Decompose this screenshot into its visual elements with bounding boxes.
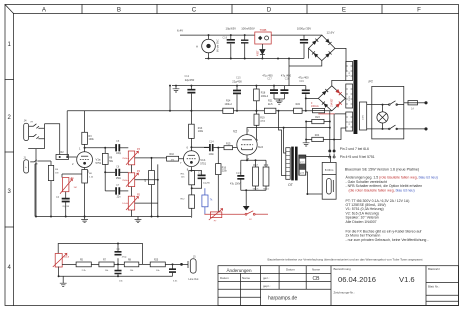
resistor R18 [255, 86, 257, 89]
wire bridge B2 right to PT [344, 97, 347, 99]
svg-text:C16: C16 [223, 37, 228, 40]
svg-text:100p: 100p [116, 153, 122, 155]
potentiometer P1 gain (red) [60, 178, 72, 194]
svg-text:1A: 1A [411, 107, 414, 110]
potentiometer P3 treble (red) [126, 151, 138, 165]
svg-text:V2: V2 [233, 130, 237, 134]
svg-text:harpamps.de: harpamps.de [268, 296, 297, 302]
wire B+ rail A [172, 85, 306, 87]
mid capacitor C8 [105, 171, 115, 173]
svg-text:R16: R16 [222, 167, 227, 169]
svg-text:C18: C18 [285, 78, 290, 81]
svg-text:5751: 5751 [96, 161, 102, 165]
jack J5 line out [182, 261, 189, 268]
fuse F2 HT [313, 108, 325, 112]
svg-text:C11: C11 [198, 172, 203, 175]
OT secondary bottom wire [306, 172, 308, 194]
svg-text:6V wie BNC: 6V wie BNC [217, 39, 220, 52]
red removed wire [318, 113, 335, 115]
OT primary return wire [279, 111, 286, 176]
svg-text:300V: 300V [349, 95, 351, 101]
resistor R17 [253, 167, 259, 186]
svg-text:1M: 1M [74, 187, 77, 189]
wiper bus wire [135, 164, 158, 216]
svg-text:5751: 5751 [200, 161, 206, 165]
wire heater bottom rail [205, 58, 304, 60]
svg-text:grün: grün [300, 160, 305, 163]
svg-text:A: A [196, 45, 198, 49]
transformer OT core [291, 147, 294, 181]
mains box with pilot lamp [372, 86, 404, 138]
svg-text:6L6: 6L6 [258, 145, 263, 149]
resistor R8 [124, 262, 139, 267]
input jack J1 [24, 160, 29, 173]
svg-text:R17: R17 [253, 164, 258, 167]
NFB resistor 7k (blue) [202, 195, 208, 207]
mains switch top [372, 101, 404, 105]
coupling capacitor C14 [204, 147, 209, 149]
svg-text:Bluesman SE 15W Version 1.6 (: Bluesman SE 15W Version 1.6 (neue Platin… [345, 168, 419, 172]
V1a cathode [62, 168, 85, 178]
svg-text:Pin 2 und 7 bei 6L6: Pin 2 und 7 bei 6L6 [340, 147, 369, 151]
diode D1 1N4007 [261, 44, 263, 59]
title block outer box [218, 266, 459, 306]
transformer PT right winding [360, 102, 367, 130]
svg-text:Datum: Datum [220, 276, 229, 280]
svg-text:R19: R19 [260, 118, 265, 120]
resistor R20 [263, 167, 269, 186]
bypass capacitor C11 [191, 171, 201, 175]
frame row dividers [5, 80, 14, 228]
capacitor C15 22u/400 [236, 86, 238, 111]
pot chain wires [131, 165, 133, 217]
svg-text:Name: Name [312, 268, 320, 272]
capacitor C4 100n/630V [244, 35, 246, 58]
svg-text:250k A: 250k A [122, 179, 129, 182]
svg-text:R24: R24 [315, 134, 320, 137]
capacitor C6 1000u/35V [303, 35, 305, 58]
shunt capacitor C21 3.3n [172, 264, 174, 268]
title block middle verticals [279, 266, 331, 306]
capacitor C3 22u/35 [65, 192, 67, 198]
svg-text:F: F [417, 7, 421, 14]
frame corner diagonal [5, 5, 14, 14]
connector A heater jack [202, 39, 216, 53]
svg-text:22µ/350: 22µ/350 [185, 78, 195, 82]
ground C17 C18 [274, 99, 284, 101]
capacitor C18 47u/450 [283, 86, 285, 99]
bridge rectifier B1 [309, 35, 336, 61]
svg-text:2x Mono bei Thomann: 2x Mono bei Thomann [346, 234, 381, 238]
wire heater top rail [180, 34, 322, 36]
V1a plate node [85, 144, 116, 151]
svg-text:1M: 1M [145, 179, 147, 182]
ground rail bottom left [36, 216, 191, 218]
lamp connection wires [382, 105, 384, 129]
svg-text:22µ/35: 22µ/35 [203, 183, 211, 185]
resistor R22 on rail [294, 108, 303, 113]
line out chain wire [62, 263, 180, 265]
ground stub rail A left [175, 86, 177, 89]
svg-text:22µ/400: 22µ/400 [232, 80, 242, 84]
transformer OT left winding [286, 148, 290, 180]
potentiometer P4 mid (red) [126, 173, 138, 187]
svg-text:OT: OT [288, 183, 294, 187]
svg-text:100k-2: 100k-2 [261, 95, 269, 98]
V1b plate node [191, 138, 209, 151]
grid resistor R10 [167, 156, 179, 161]
svg-text:100n: 100n [209, 153, 215, 156]
V1b cathode [190, 167, 192, 171]
svg-text:C12: C12 [185, 75, 190, 78]
svg-text:12,6V: 12,6V [327, 31, 335, 35]
grid leak R16 [217, 148, 219, 164]
svg-text:R22: R22 [296, 103, 301, 106]
ground line out [62, 276, 64, 283]
wire J4 sleeve [28, 128, 44, 216]
capacitor C13 47u/100V [237, 176, 244, 179]
tube V1a 5751 [77, 152, 93, 168]
frame top strip line [14, 13, 459, 15]
wire J4 to grid bus [45, 124, 60, 155]
wire B+ rail B [67, 110, 332, 112]
P2 bottom to ground rail [58, 267, 60, 277]
svg-text:1M: 1M [55, 172, 58, 174]
heater feed wire 1 [329, 111, 331, 150]
V2 plate wire to OT [247, 128, 330, 135]
svg-text:Blatt Nr.:: Blatt Nr.: [428, 285, 440, 289]
svg-text:10µ/63V: 10µ/63V [226, 27, 237, 31]
resistor R25 [150, 262, 165, 267]
bleeder left bus and ground [305, 122, 307, 143]
treble capacitor C5 [116, 144, 119, 151]
svg-text:160mA: 160mA [311, 105, 319, 108]
resistor R24 [312, 137, 324, 141]
removed NFB pot (red) [204, 209, 245, 220]
svg-text:Alle Dioden 1N4007: Alle Dioden 1N4007 [346, 220, 377, 224]
input jack J4 [24, 123, 29, 140]
resistor R4 [37, 161, 51, 165]
wire PT to mains box [367, 105, 372, 129]
svg-text:V1.6: V1.6 [399, 275, 415, 284]
resistor R7 [99, 262, 114, 267]
V2 cathode network [241, 155, 266, 175]
svg-text:12V: 12V [349, 121, 351, 125]
ground symbol under rail 1 [84, 217, 86, 220]
cathode ground bus [241, 190, 266, 206]
svg-text:gez.:: gez.: [263, 276, 270, 280]
speaker jack 8 Ohm [322, 162, 336, 199]
transformer PT left winding 2 [346, 84, 353, 108]
resistor R23 [312, 119, 324, 123]
svg-text:47µ 100V: 47µ 100V [230, 183, 241, 186]
title block right column rows [426, 283, 459, 302]
svg-text:C15: C15 [236, 77, 241, 80]
svg-text:10k A: 10k A [122, 202, 128, 205]
svg-text:2k-5: 2k-5 [268, 103, 273, 106]
tube V1b 5751 [184, 151, 200, 167]
bypass capacitor C9 [117, 244, 119, 265]
svg-text:06.04.2016: 06.04.2016 [338, 275, 376, 284]
shunt capacitor C10 13n [117, 264, 119, 270]
mains switch bottom [372, 125, 404, 129]
cathode resistor R6 [82, 170, 88, 184]
svg-text:Zeichnungs-Nr.:: Zeichnungs-Nr.: [334, 290, 355, 294]
svg-text:47µ /400: 47µ /400 [298, 76, 309, 80]
svg-text:VR: VR [30, 122, 33, 124]
title block left section rows [218, 273, 331, 297]
svg-text:8 Ohm: 8 Ohm [325, 168, 334, 172]
svg-text:C19: C19 [299, 80, 304, 83]
svg-text:250n: 250n [116, 178, 122, 180]
svg-text:Line Out: Line Out [189, 277, 199, 281]
svg-text:- nur zum privaten Gebrauch, k: - nur zum privaten Gebrauch, keine Veröf… [346, 238, 430, 242]
title block left section verticals [241, 266, 261, 306]
svg-text:Bezeichnung: Bezeichnung [334, 267, 352, 271]
svg-text:C14: C14 [209, 141, 214, 144]
svg-text:PT: PT [369, 80, 374, 84]
ground rail line out [59, 275, 173, 277]
transformer PT left winding 3 [346, 112, 353, 131]
svg-text:Blattzahl: Blattzahl [428, 267, 440, 271]
cathode resistor R11 [189, 171, 195, 185]
frame left strip line [13, 14, 15, 306]
svg-text:C: C [192, 7, 197, 14]
title block right column divider [425, 266, 427, 306]
treble out wire [135, 157, 165, 159]
svg-text:Datum: Datum [286, 268, 295, 272]
svg-text:250k A: 250k A [122, 157, 129, 160]
line out feed wire [58, 244, 142, 265]
plate resistor R3 [84, 111, 86, 133]
potentiometer P5 bass (red) [126, 196, 138, 210]
svg-text:220k: 220k [222, 171, 228, 173]
transformer OT right winding [299, 155, 306, 175]
frame column dividers [82, 5, 382, 14]
removed NFB switch (red) [245, 211, 268, 215]
jack J1 contacts [30, 160, 37, 164]
jack J4 switch contacts [29, 124, 45, 129]
svg-text:T60B: T60B [260, 28, 267, 32]
svg-text:D: D [267, 7, 272, 14]
resistor R5 [76, 262, 91, 267]
wire rail B down to V1a grid [66, 111, 68, 157]
svg-text:C13: C13 [236, 172, 241, 175]
svg-text:10k A: 10k A [64, 256, 70, 259]
capacitor C17 47u/450 [273, 86, 275, 99]
svg-text:R10: R10 [170, 153, 175, 156]
svg-text:100k-2: 100k-2 [225, 103, 233, 106]
svg-text:1N4007: 1N4007 [331, 98, 334, 107]
svg-text:Pin 4+5 und 9 bei 5751: Pin 4+5 und 9 bei 5751 [340, 155, 375, 159]
mains terminal bottom [404, 128, 425, 130]
svg-text:230V: 230V [363, 114, 365, 120]
wire bridge B2 left [306, 97, 319, 99]
svg-text:R25: R25 [154, 260, 159, 262]
wire bridge B1 left vertex [308, 48, 310, 58]
heater feed wire 2 [333, 114, 335, 150]
svg-text:V1b: V1b [200, 158, 205, 162]
svg-text:22µ/35: 22µ/35 [62, 206, 70, 208]
svg-text:1000µ /35V: 1000µ /35V [297, 27, 311, 31]
resistor R26 tone bleed [151, 158, 153, 171]
junction dots heater [208, 34, 210, 36]
plate resistor R13 [189, 124, 195, 138]
fuse F1 mains [404, 102, 408, 104]
svg-text:100k: 100k [198, 130, 204, 133]
potentiometer P2 line out (red) [53, 254, 67, 268]
heater pin stubs second row [330, 154, 334, 157]
ground symbol under rail 2 [137, 217, 139, 220]
resistor R2 [56, 155, 69, 160]
capacitor C19 47u/400 [305, 86, 307, 111]
bass capacitor C7 [105, 190, 115, 192]
transformer PT left winding 1 [346, 62, 353, 81]
OT secondary top wire to speaker jack [306, 157, 331, 163]
svg-text:47-5: 47-5 [260, 121, 265, 123]
wire bridge B1 bottom vertex [289, 59, 322, 86]
svg-text:R15: R15 [226, 142, 231, 145]
svg-text:E: E [342, 7, 346, 14]
screen resistor R19 [256, 111, 258, 114]
svg-text:Bauteilwerte teilweise zur Ver: Bauteilwerte teilweise zur Vereinfachung… [268, 258, 423, 262]
bridge rectifier B2 [318, 86, 345, 111]
switch box T60B [255, 32, 271, 44]
slope resistor R9 [104, 148, 106, 154]
capacitor C16 10u/63V [230, 35, 232, 58]
svg-text:CB: CB [313, 276, 321, 282]
svg-text:gepr.:: gepr.: [263, 284, 271, 288]
grid stopper R15 [214, 147, 224, 149]
svg-text:6,4V: 6,4V [177, 29, 183, 33]
mains terminal top [418, 102, 425, 104]
pilot lamp [377, 112, 388, 123]
tube V2 6L6 [237, 135, 257, 155]
wire bridge B1 to PT [335, 48, 346, 71]
svg-text:V1a: V1a [96, 158, 101, 162]
capacitor C12 22u/350 [190, 86, 192, 125]
resistor R14 on rail [223, 108, 234, 113]
svg-text:6,3V: 6,3V [349, 71, 351, 76]
svg-text:R23: R23 [315, 116, 320, 119]
svg-text:Änderungen: Änderungen [226, 267, 251, 273]
svg-text:Name: Name [242, 276, 250, 280]
svg-text:4007: 4007 [257, 50, 260, 56]
transformer PT core [354, 60, 358, 134]
line out terminal dot [181, 263, 183, 265]
svg-text:R20: R20 [264, 164, 269, 167]
tail resistor R12 [189, 195, 195, 208]
svg-text:100k: 100k [89, 138, 95, 141]
wire rail A to rail B link [169, 86, 171, 111]
svg-text:C17: C17 [267, 78, 272, 81]
wire bridge B2 top to PT [332, 80, 346, 85]
svg-text:100n/630V: 100n/630V [241, 27, 255, 31]
svg-text:B: B [117, 7, 121, 14]
resistor R21 on rail [264, 108, 276, 113]
svg-text:(die roten Bauteile fallen we: (die roten Bauteile fallen weg, blau ist… [349, 189, 415, 193]
